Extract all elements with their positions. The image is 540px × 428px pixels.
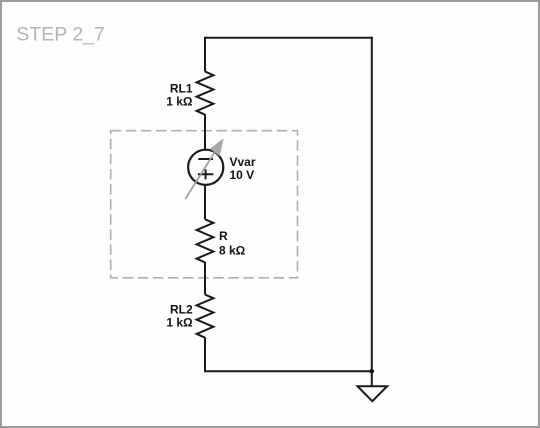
resistor R xyxy=(197,219,214,262)
dashed selection box xyxy=(111,131,298,278)
svg-text:8 kΩ: 8 kΩ xyxy=(219,243,246,257)
junction xyxy=(370,369,375,374)
wire top xyxy=(204,37,373,39)
svg-text:10 V: 10 V xyxy=(230,168,255,182)
wire left: top to RL1 xyxy=(204,37,206,72)
svg-text:R: R xyxy=(219,229,228,243)
wire R to RL2 xyxy=(204,262,206,295)
svg-text:RL1: RL1 xyxy=(170,81,193,95)
resistor RL1 xyxy=(197,72,214,115)
svg-text:Vvar: Vvar xyxy=(230,155,256,169)
wire Vvar to R xyxy=(204,186,206,219)
voltage source Vvar xyxy=(185,138,223,199)
svg-text:STEP 2_7: STEP 2_7 xyxy=(16,23,105,45)
svg-text:1 kΩ: 1 kΩ xyxy=(166,95,193,109)
wire RL1 to Vvar xyxy=(204,114,206,149)
resistor RL2 xyxy=(197,295,214,338)
ground xyxy=(358,386,388,401)
wire RL2 to bottom xyxy=(204,337,206,372)
svg-text:1 kΩ: 1 kΩ xyxy=(166,316,193,330)
wire bottom xyxy=(204,370,372,372)
wire junction to ground xyxy=(371,371,373,386)
wire right xyxy=(371,37,373,371)
svg-text:RL2: RL2 xyxy=(170,302,193,316)
